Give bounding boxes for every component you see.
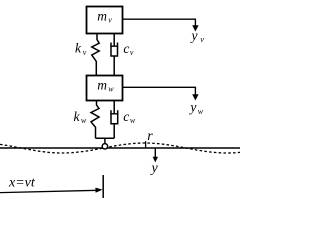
svg-text:v: v [200, 34, 204, 44]
svg-text:w: w [198, 107, 204, 116]
svg-text:v: v [130, 48, 134, 57]
svg-text:c: c [123, 109, 129, 124]
svg-text:v: v [83, 48, 87, 57]
svg-text:k: k [74, 109, 81, 124]
svg-text:y: y [190, 28, 198, 43]
svg-text:y: y [150, 161, 159, 176]
svg-text:k: k [75, 41, 82, 56]
svg-text:m: m [97, 8, 107, 23]
svg-text:w: w [130, 116, 136, 125]
svg-text:c: c [123, 41, 129, 56]
svg-text:v: v [108, 15, 112, 24]
svg-text:x=vt: x=vt [8, 175, 36, 190]
svg-text:y: y [188, 100, 196, 115]
svg-text:m: m [97, 78, 107, 93]
svg-text:w: w [81, 116, 87, 125]
svg-text:w: w [108, 85, 114, 94]
svg-text:r: r [147, 129, 153, 144]
